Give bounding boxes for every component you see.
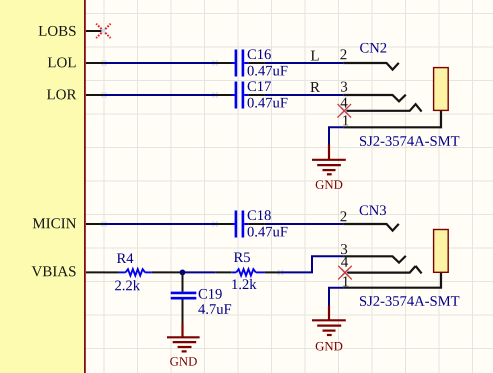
no-ERC marker on CN2 pin 4: [338, 104, 352, 118]
wire GND to CN3 pin 1: [329, 288, 343, 307]
CN3 pin 2: [340, 211, 398, 230]
GND label C19: [170, 357, 197, 366]
C18 value 0.47uF: [248, 227, 288, 237]
CN2 pin 1: [343, 111, 441, 128]
connection markers: [101, 60, 283, 275]
C19 value 4.7uF: [198, 304, 231, 314]
R5 designator: [234, 252, 250, 262]
junction node: [180, 270, 186, 276]
CN3 pin 4: [341, 257, 422, 273]
connector CN2 designator: [360, 43, 386, 53]
wire C19 to GND: [182, 300, 184, 323]
C19 designator: [199, 289, 222, 299]
sheet symbol strip: [0, 0, 85, 373]
ground symbol CN3: [312, 306, 346, 336]
CN2 jack sleeve rectangle: [434, 68, 449, 111]
CN3 jack sleeve rectangle: [434, 230, 449, 273]
capacitor C18: [215, 211, 265, 238]
port LOBS: [39, 26, 105, 36]
C17 value 0.47uF: [248, 98, 288, 108]
C18 designator: [248, 210, 271, 220]
R5 value 1.2k: [232, 279, 256, 289]
CN2 comment SJ2-3574A-SMT: [360, 136, 459, 146]
resistor R5: [215, 269, 280, 275]
ground symbol C19: [167, 323, 200, 352]
capacitor C17: [215, 82, 265, 109]
wire MICIN to C18: [104, 223, 215, 225]
port MICIN: [33, 218, 104, 228]
port VBIAS: [32, 266, 104, 276]
no-ERC marker on CN3 pin 4: [338, 266, 352, 280]
CN2 pin 4: [341, 98, 422, 112]
C16 designator: [248, 49, 271, 59]
port LOL: [48, 57, 104, 67]
capacitor C16: [215, 50, 265, 77]
wire junction to R5: [180, 271, 215, 273]
wire junction to C19: [182, 272, 184, 291]
capacitor C19: [171, 293, 197, 298]
CN2 pin 3: [341, 82, 406, 102]
port LOR: [47, 89, 104, 99]
wire R4 to junction: [152, 271, 180, 273]
resistor R4: [119, 269, 152, 275]
wire C16 to CN2 pin2: [265, 62, 343, 64]
ground symbol CN2: [312, 145, 346, 175]
wire C17 to CN3... CN2 pin3: [265, 94, 343, 96]
GND label CN2: [316, 180, 343, 189]
wire LOR to C17: [104, 94, 215, 96]
CN3 pin 1: [343, 273, 441, 288]
CN3 comment SJ2-3574A-SMT: [360, 296, 459, 306]
C16 value 0.47uF: [248, 66, 288, 76]
connector CN3 designator: [360, 205, 386, 215]
R4 designator: [117, 253, 133, 263]
net label L: [311, 51, 319, 61]
wire LOL to C16: [104, 62, 215, 64]
no-ERC marker on LOBS: [96, 24, 110, 38]
GND label CN3: [316, 342, 343, 351]
wire C18 to CN3 pin2: [265, 223, 343, 225]
R4 value 2.2k: [115, 280, 140, 290]
CN3 pin 3: [341, 244, 406, 263]
wire GND to CN2 pin 1: [329, 127, 343, 145]
net label R: [310, 82, 320, 92]
wire VBIAS to R4: [104, 271, 119, 273]
C17 designator: [248, 81, 271, 91]
CN2 pin 2: [340, 49, 398, 69]
wire R5 to CN3 pin 3: [280, 256, 343, 272]
